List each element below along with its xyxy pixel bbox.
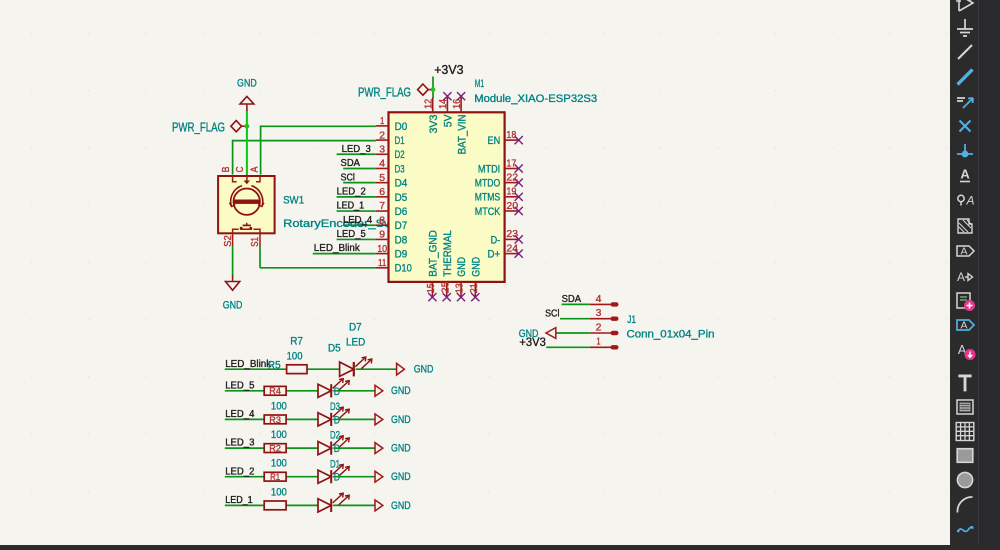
toolbar icon: circle: [957, 472, 972, 487]
PWR_FLAG symbol (right, at +3V3): [418, 84, 429, 95]
svg-text:D5: D5: [328, 343, 341, 355]
pin 20 (MTCK): [505, 210, 519, 212]
no-connect pin 17: [515, 164, 523, 172]
toolbar icon: netclass directive: [958, 194, 975, 208]
svg-text:R7: R7: [290, 335, 303, 347]
J1 pin 4: [590, 303, 612, 305]
svg-text:100: 100: [271, 458, 287, 470]
svg-text:PWR_FLAG: PWR_FLAG: [172, 120, 225, 134]
module M1 body: [389, 112, 505, 282]
svg-text:100: 100: [271, 486, 287, 498]
pin 12 (3V3): [432, 97, 434, 112]
svg-text:MTMS: MTMS: [475, 192, 501, 204]
svg-text:9: 9: [379, 230, 385, 241]
pin 25 (THERMAL): [446, 282, 448, 297]
toolbar icon: text box: [957, 400, 973, 414]
no-connect pin 18: [515, 136, 523, 144]
resistor row 3: [264, 415, 286, 424]
toolbar icon: wire to bus entry: [957, 98, 973, 108]
rotation arc left: [231, 186, 242, 207]
svg-text:3: 3: [596, 308, 602, 319]
svg-text:LED_1: LED_1: [225, 495, 253, 506]
svg-text:+3V3: +3V3: [434, 63, 463, 77]
pin S1 stem: [259, 233, 261, 246]
svg-text:13: 13: [455, 283, 466, 293]
pin 7 (D6): [376, 210, 389, 212]
pin B inner hook: [233, 176, 237, 182]
svg-text:GND: GND: [471, 257, 483, 277]
pin A inner hook: [256, 176, 260, 182]
wire: +3V3 label to chip pin 12: [432, 77, 434, 99]
pin 13 (GND): [460, 282, 462, 297]
hierarchical label GND row 4: [375, 443, 383, 454]
pin 24 (D+): [505, 253, 519, 255]
svg-text:LED_3: LED_3: [225, 438, 254, 449]
no-connect pin 20: [515, 207, 523, 215]
pin 2 (D1): [376, 139, 389, 141]
pin C stem: [246, 175, 248, 181]
power symbol GND (top, flipped): [240, 96, 254, 104]
toolbar icon: add wire: [958, 45, 972, 59]
wire: LED row 1 (LED_Blink): [225, 368, 287, 370]
svg-text:LED: LED: [346, 337, 365, 349]
no-connect pin 24: [515, 250, 523, 258]
junction GND net: [245, 124, 250, 129]
svg-text:A: A: [957, 270, 965, 284]
svg-text:23: 23: [506, 229, 518, 240]
svg-text:SCl: SCl: [341, 172, 355, 183]
no-connect pin 25: [443, 293, 451, 301]
no-connect pin 19: [515, 193, 523, 201]
svg-text:GND: GND: [391, 500, 411, 512]
resistor row 4: [264, 444, 286, 453]
pin S2 stem: [232, 233, 234, 246]
wire D0 net: encoder A to chip pin1: [261, 125, 376, 127]
toolbar icon: junction: [957, 144, 973, 157]
wire: labelled net at chip pin 9: [337, 238, 376, 240]
pin 5 (D4): [376, 182, 389, 184]
wire: LED row 2 (LED_5): [225, 390, 264, 392]
wire: labelled net at chip pin 3: [337, 153, 376, 155]
diode D5: [318, 470, 331, 483]
svg-text:21: 21: [469, 283, 480, 293]
svg-text:S1: S1: [250, 237, 261, 247]
toolbar icon: sheet pin: [957, 320, 974, 332]
svg-text:2: 2: [596, 322, 602, 333]
svg-text:LED_Blink: LED_Blink: [225, 359, 272, 370]
encoder knob bar: [234, 200, 259, 204]
toolbar icon: add sheet: [957, 293, 975, 311]
svg-text:R2: R2: [269, 444, 281, 454]
svg-text:8: 8: [379, 215, 385, 226]
svg-text:D6: D6: [395, 206, 408, 218]
svg-text:D: D: [334, 414, 340, 426]
svg-text:6: 6: [379, 187, 385, 198]
wire: LED row 6 (LED_1): [225, 504, 264, 506]
svg-text:C: C: [235, 166, 246, 172]
svg-text:LED_5: LED_5: [337, 229, 366, 240]
pin 9 (D8): [376, 238, 389, 240]
svg-text:LED_Blink: LED_Blink: [314, 243, 361, 254]
svg-text:11: 11: [378, 258, 387, 269]
J1 pin 1: [590, 346, 612, 348]
resistor row 2: [264, 386, 286, 395]
wire J1 pin 4: [562, 303, 590, 305]
svg-text:D-: D-: [491, 234, 501, 246]
svg-text:R3: R3: [269, 415, 281, 425]
wire GND net (highlighted): gnd symbol to encoder pin C: [246, 111, 248, 175]
svg-text:D: D: [334, 472, 340, 484]
no-connect pin 22: [515, 179, 523, 187]
svg-text:D2: D2: [395, 149, 405, 161]
svg-text:EN: EN: [488, 135, 501, 147]
svg-text:GND: GND: [223, 300, 243, 312]
hierarchical label GND row 6: [375, 500, 383, 511]
svg-text:J1: J1: [627, 314, 636, 326]
svg-text:3: 3: [379, 144, 385, 155]
svg-text:D2: D2: [330, 430, 340, 442]
toolbar icon: add bus: [958, 70, 973, 85]
svg-text:BAT_GND: BAT_GND: [428, 230, 440, 277]
svg-text:D0: D0: [395, 121, 408, 133]
svg-text:Conn_01x04_Pin: Conn_01x04_Pin: [627, 328, 715, 340]
pin 6 (D5): [376, 196, 389, 198]
encoder knob circle: [234, 189, 260, 215]
svg-text:1: 1: [380, 116, 384, 127]
pin 16 (BAT_VIN): [460, 96, 462, 112]
svg-text:A: A: [965, 194, 974, 208]
pin 10 (D9): [376, 253, 389, 255]
svg-text:GND: GND: [391, 414, 411, 426]
push button contacts: [240, 228, 252, 230]
svg-text:R5: R5: [268, 359, 281, 371]
no-connect pin 13: [457, 293, 465, 301]
diode D4: [318, 442, 331, 455]
svg-text:D1: D1: [330, 458, 340, 470]
svg-text:12: 12: [424, 99, 435, 109]
svg-text:GND: GND: [414, 364, 434, 376]
svg-text:18: 18: [506, 130, 516, 141]
pin 1 (D0): [376, 125, 389, 127]
svg-text:D7: D7: [395, 220, 408, 232]
svg-text:LED_3: LED_3: [342, 144, 371, 155]
svg-text:2: 2: [379, 130, 385, 141]
svg-text:D3: D3: [395, 163, 405, 175]
svg-text:D: D: [334, 443, 340, 455]
svg-text:1: 1: [596, 337, 600, 348]
svg-text:MTDO: MTDO: [475, 178, 500, 190]
svg-text:25: 25: [440, 281, 451, 293]
pin 8 (D7): [376, 224, 389, 226]
svg-text:D8: D8: [395, 234, 408, 246]
svg-text:GND: GND: [391, 385, 411, 397]
svg-text:A: A: [960, 167, 970, 182]
J1 pin 2: [590, 332, 612, 334]
svg-text:A: A: [960, 246, 967, 258]
diode D2: [318, 384, 331, 397]
svg-text:+3V3: +3V3: [519, 335, 546, 349]
wire: labelled net at chip pin 5: [343, 182, 376, 184]
svg-text:B: B: [221, 166, 232, 172]
svg-text:MTDI: MTDI: [478, 163, 500, 175]
svg-text:D9: D9: [395, 249, 408, 261]
toolbar icon: table: [956, 423, 974, 441]
svg-text:PWR_FLAG: PWR_FLAG: [358, 85, 411, 99]
svg-text:R4: R4: [269, 386, 281, 396]
power symbol GND (bottom of encoder): [226, 282, 240, 291]
pin 23 (D-): [505, 238, 519, 240]
diode D1: [340, 362, 354, 376]
wire: LED row 4 (LED_3): [225, 447, 264, 449]
pin 21 (GND): [474, 282, 476, 297]
pin 19 (MTMS): [505, 196, 519, 198]
wire: labelled net at chip pin 7: [337, 210, 376, 212]
toolbar icon: text: [958, 376, 971, 392]
wire: LED row 3 (LED_4): [225, 418, 264, 420]
svg-text:4: 4: [379, 159, 385, 170]
svg-text:17: 17: [506, 158, 516, 169]
wire: labelled net at chip pin 4: [343, 167, 376, 169]
no-connect pin 15: [428, 293, 436, 301]
svg-text:SCl: SCl: [545, 308, 559, 319]
no-connect pin 14: [443, 92, 451, 100]
svg-text:D+: D+: [488, 249, 501, 261]
svg-text:BAT_VIN: BAT_VIN: [456, 115, 468, 155]
junction +3V3 net: [431, 87, 436, 92]
svg-text:5: 5: [379, 173, 385, 184]
toolbar icon: rule area: [958, 219, 972, 233]
svg-text:LED_4: LED_4: [225, 409, 254, 420]
toolbar icon: hierarchical label: [957, 270, 973, 284]
toolbar icon: import sheet pin: [958, 343, 976, 360]
svg-text:LED_2: LED_2: [225, 466, 254, 477]
pin 18 (EN): [505, 139, 519, 141]
svg-text:D4: D4: [395, 178, 408, 190]
no-connect pin 21: [471, 293, 479, 301]
svg-text:7: 7: [379, 201, 385, 212]
diode D3: [318, 413, 331, 426]
wire: labelled net at chip pin 10: [313, 253, 376, 255]
svg-text:SDA: SDA: [562, 294, 582, 305]
svg-text:100: 100: [287, 351, 303, 363]
rotation arc right: [251, 186, 262, 207]
wire: S1 to chip pin11: [259, 246, 261, 268]
diode D6: [318, 499, 331, 512]
svg-text:A: A: [249, 166, 260, 172]
svg-text:22: 22: [506, 172, 518, 183]
svg-text:THERMAL: THERMAL: [442, 230, 454, 277]
toolbar icon: arc: [957, 497, 972, 513]
svg-text:D7: D7: [349, 322, 362, 334]
no-connect pin 16: [457, 92, 465, 100]
pin S2 inner hook: [233, 229, 239, 233]
wire J1 pin 2: [556, 332, 590, 334]
svg-text:15: 15: [426, 283, 437, 293]
pin 3 (D2): [376, 153, 389, 155]
svg-text:M1: M1: [475, 78, 484, 90]
pin 11 (D10): [376, 267, 389, 269]
hierarchical label GND row 5: [375, 471, 383, 482]
svg-text:SDA: SDA: [341, 158, 361, 169]
svg-text:D3: D3: [330, 401, 340, 413]
hierarchical label GND (J1): [546, 328, 556, 339]
svg-text:GND: GND: [391, 443, 411, 455]
toolbar icon: add power port: [957, 19, 973, 36]
pin C inner dot: [244, 181, 251, 185]
pin 22 (MTDO): [505, 182, 519, 184]
hierarchical label GND row 1: [397, 363, 405, 375]
wire J1 pin 3: [560, 318, 590, 320]
svg-text:D5: D5: [395, 192, 408, 204]
svg-text:10: 10: [377, 244, 387, 255]
svg-text:LED_4: LED_4: [343, 215, 372, 226]
svg-text:20: 20: [506, 201, 518, 212]
svg-text:GND: GND: [456, 257, 468, 277]
wire: labelled net at chip pin 6: [337, 196, 376, 198]
hierarchical label GND row 2: [375, 385, 383, 396]
svg-text:100: 100: [271, 429, 287, 441]
svg-text:MTCK: MTCK: [475, 206, 501, 218]
PWR_FLAG symbol (left): [231, 121, 242, 132]
wire J1 pin 1: [546, 346, 590, 348]
toolbar icon: bezier: [957, 526, 973, 532]
svg-text:24: 24: [506, 243, 518, 254]
svg-text:Module_XIAO-ESP32S3: Module_XIAO-ESP32S3: [474, 93, 597, 105]
svg-text:D10: D10: [395, 263, 412, 275]
pin 14 (5V): [446, 96, 448, 112]
svg-text:S2: S2: [223, 235, 234, 247]
svg-text:19: 19: [506, 187, 516, 198]
J1 pin 3: [590, 318, 612, 320]
svg-text:4: 4: [596, 294, 602, 305]
no-connect pin 23: [515, 235, 523, 243]
wire: S2 down to GND: [232, 246, 234, 276]
wire D1 net: encoder B to chip pin2: [233, 140, 376, 142]
svg-text:3V3: 3V3: [428, 115, 440, 134]
svg-text:R1: R1: [270, 472, 280, 482]
svg-text:LED_2: LED_2: [337, 186, 366, 197]
toolbar icon: net label: [960, 167, 970, 182]
svg-text:GND: GND: [391, 471, 411, 483]
svg-text:D: D: [334, 386, 340, 398]
svg-text:LED_1: LED_1: [337, 201, 365, 212]
toolbar icon: no connect: [960, 121, 971, 132]
resistor row 1: [287, 365, 307, 374]
wire: LED row 5 (LED_2): [225, 476, 264, 478]
svg-text:5V: 5V: [443, 114, 455, 127]
wire: labelled net at chip pin 8: [343, 224, 376, 226]
svg-text:SW1: SW1: [283, 195, 304, 207]
pin 4 (D3): [376, 167, 389, 169]
toolbar icon: rectangle: [957, 449, 973, 463]
svg-text:LED_5: LED_5: [225, 380, 254, 391]
toolbar icon: global label: [957, 246, 974, 258]
pin S1 inner hook: [253, 229, 260, 233]
svg-text:GND: GND: [237, 77, 257, 89]
pin 15 (BAT_GND): [431, 282, 433, 297]
pin 17 (MTDI): [505, 168, 519, 170]
rotary encoder SW1 body: [218, 176, 275, 233]
svg-text:100: 100: [271, 400, 287, 412]
svg-text:A: A: [960, 320, 967, 332]
resistor row 5: [264, 472, 286, 481]
svg-text:D1: D1: [395, 135, 405, 147]
toolbar icon: add symbol: [956, 0, 973, 11]
resistor row 6: [264, 501, 286, 510]
hierarchical label GND row 3: [375, 414, 383, 425]
